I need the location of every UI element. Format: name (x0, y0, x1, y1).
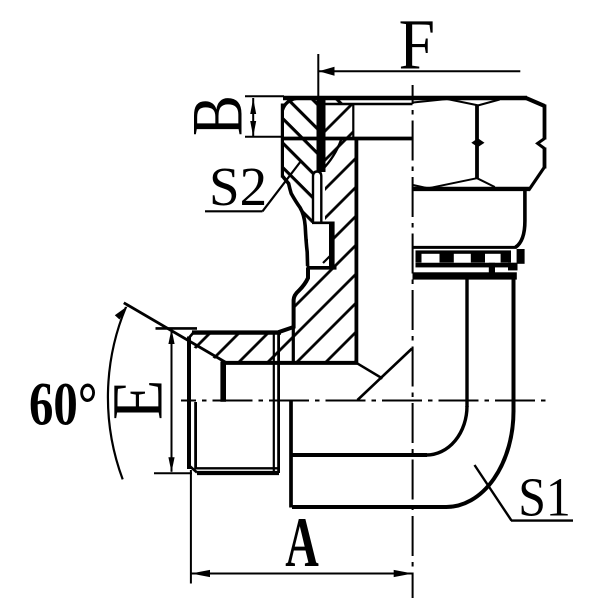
60 degree arc (108, 307, 126, 479)
stud bottom-left chamfer (189, 466, 197, 473)
stud left face (187, 337, 191, 470)
stud top-left chamfer (189, 333, 194, 339)
svg-text:B: B (178, 95, 258, 136)
thread bar (solid black, mating stud thread end) (317, 100, 326, 172)
svg-text:S2: S2 (209, 156, 267, 217)
nut top V right (478, 100, 500, 106)
S2 leader (263, 161, 302, 211)
dimension B line (252, 98, 254, 137)
S1 leader underline (511, 519, 573, 521)
body bottom line (292, 505, 447, 509)
washer top line (413, 246, 517, 249)
dimension E arrowhead up (168, 329, 174, 344)
port face line (322, 103, 413, 106)
dimension F line (319, 70, 521, 72)
nut top V left (447, 99, 478, 105)
svg-text:F: F (399, 5, 435, 84)
60 degree arc arrowhead (115, 306, 128, 320)
stud thread end line 2 (277, 332, 280, 473)
tube outer right wall (512, 277, 516, 412)
hatched section region A (mating stud, backslash hatch) (282, 96, 357, 266)
nut bottom chamfer left (428, 178, 477, 188)
S2 leader underline (205, 210, 263, 212)
mating stud left edge (281, 104, 284, 178)
collar right edge (516, 189, 525, 247)
nut right notch (538, 139, 545, 149)
dimension E arrowhead down (168, 457, 174, 472)
nut top right chamfer (526, 98, 545, 106)
dimension B extension bottom (245, 136, 284, 138)
60 deg cone face line with extension (124, 303, 226, 363)
top face line of drawing (283, 96, 527, 101)
serration slot 3 (485, 254, 501, 263)
stud bottom thread line (197, 467, 278, 469)
dimension E line (171, 329, 173, 472)
serration slot 2 (454, 254, 471, 263)
washer connector tick (489, 263, 495, 273)
bore chamfer D1 (357, 363, 383, 379)
svg-text:60°: 60° (29, 370, 97, 439)
dimension A arrowhead right (394, 570, 413, 577)
dimension A line (191, 573, 413, 575)
cone shoulder line (222, 361, 358, 365)
horizontal centerline (181, 400, 550, 402)
nut hex edge diamond (471, 138, 484, 147)
hatched section region B (body section, slash hatch) (191, 104, 357, 363)
nut hex edge (475, 105, 479, 179)
mating stud top-left chamfer (283, 99, 297, 111)
staircase thread runout profile (279, 268, 309, 332)
stud top edge (192, 330, 281, 334)
svg-text:E: E (98, 380, 177, 420)
stud thread end line 1 (273, 334, 275, 473)
horizontal cone D2 (358, 349, 413, 401)
body left face lower segment (289, 400, 293, 508)
body left face upper segment (292, 327, 295, 364)
B reference line (thread shoulder) (282, 137, 412, 141)
channel bottom shoulder line (307, 266, 337, 270)
relief profile curve (282, 176, 307, 266)
dimension A arrowhead left (191, 570, 210, 577)
dimension E top tick (156, 327, 198, 330)
nut bottom chamfer right (477, 178, 495, 187)
thread channel slot (white with rounded top) (313, 172, 321, 224)
female thread minor line (352, 105, 354, 140)
channel bottom ledge (312, 222, 335, 225)
nut bottom V thin left (413, 185, 428, 188)
serration band (416, 250, 512, 262)
nut top chamfer left thin (413, 99, 447, 103)
stud bottom edge (197, 471, 279, 475)
vertical centerline (412, 85, 414, 598)
nut right edge lower (543, 148, 547, 169)
cone base vertical (220, 362, 226, 402)
dimension B arrowhead down (250, 121, 256, 137)
inner elbow arc (427, 406, 468, 455)
flange band (413, 272, 517, 279)
nose chamfer (323, 255, 332, 264)
dimension B arrowhead up (250, 99, 256, 115)
dimension B extension top (245, 95, 284, 97)
nose bar (329, 222, 335, 269)
bore right wall (465, 277, 468, 407)
dimension A extension line left (190, 470, 192, 584)
washer bottom line (416, 263, 518, 268)
dimension F extension line (317, 54, 319, 97)
outer elbow arc (446, 411, 513, 507)
seat cone line D4 (322, 140, 342, 171)
svg-text:A: A (285, 503, 319, 582)
dimension E bottom tick (154, 472, 192, 474)
body transition chamfer (279, 327, 294, 333)
serration slot 1 (422, 254, 440, 263)
nut bottom right chamfer (529, 167, 545, 191)
stud face inner line (194, 402, 197, 470)
svg-text:S1: S1 (518, 467, 571, 528)
dimension F arrowhead (319, 67, 335, 76)
vertical bore left wall (354, 138, 358, 364)
S1 leader (475, 465, 512, 521)
bore bottom line (291, 453, 427, 457)
nut bottom line (413, 187, 530, 191)
nut right edge upper (543, 105, 547, 140)
